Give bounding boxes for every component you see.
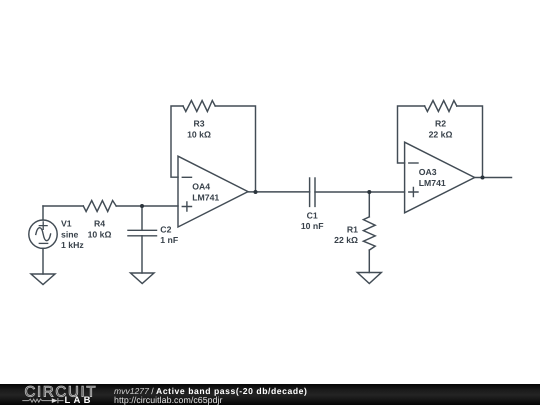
svg-text:LAB: LAB	[65, 395, 94, 405]
